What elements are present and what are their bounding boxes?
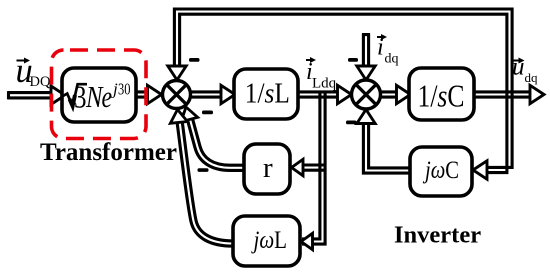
block: 1/sC — [409, 68, 474, 120]
arrowhead: into 1/sL block — [221, 85, 235, 103]
label: jwL — [251, 225, 287, 254]
svg-text:3: 3 — [74, 79, 87, 115]
arrowhead: into junction 1 from left — [148, 85, 162, 103]
svg-text:Inverter: Inverter — [394, 222, 481, 249]
arrowhead: into 1/sC block — [397, 85, 411, 103]
arrowhead: into junction 2 from left — [338, 85, 352, 103]
red dashed box around transformer block — [52, 50, 147, 139]
wire: junction 1 output to 1/sL — [191, 92, 225, 97]
label: sqrt(3)Ne^j30 — [63, 79, 131, 115]
wire: jwL feedback curve — [179, 113, 234, 244]
svg-text:dq: dq — [525, 70, 539, 85]
svg-text:e: e — [102, 79, 113, 114]
block: r — [244, 144, 290, 194]
minus sign at junction 2 for jwC feedback — [346, 121, 357, 125]
svg-text:1/sL: 1/sL — [245, 77, 290, 109]
wire: 1/sL output to junction 2 — [298, 92, 339, 97]
arrowhead: i_dq into junction 2 from top — [357, 66, 375, 80]
arrowhead: jwC feedback into junction 2 from bottom — [357, 110, 375, 124]
minus sign at junction 1 top feedback — [189, 58, 200, 62]
label: 1/sC — [418, 78, 465, 114]
block: jwL — [233, 216, 300, 266]
block: transformer sqrt(3)Ne^j30 — [62, 68, 136, 122]
arrowhead: into jwL block from right — [301, 233, 313, 249]
label: jwC — [423, 155, 459, 184]
label: i_Ldq — [306, 57, 337, 92]
arrowhead: into jwC block from right — [473, 161, 487, 179]
wire: feedback tap down from i_Ldq line to r and jwL — [302, 91, 325, 244]
wire: 1/sC output and u_dq output arrow line — [474, 92, 531, 97]
svg-text:dq: dq — [385, 52, 399, 67]
minus sign for r feedback — [198, 168, 209, 172]
wire: input u_DQ line — [8, 91, 52, 99]
arrowhead: jwL feedback curve into junction 1 — [169, 109, 187, 124]
label: u_dq output — [512, 54, 538, 86]
minus sign at junction 1 for jwL feedback — [202, 111, 213, 115]
label: u_DQ input — [16, 52, 51, 90]
label: i_dq — [377, 34, 399, 67]
svg-text:1/sC: 1/sC — [418, 78, 465, 114]
arrowhead: top feedback into junction 1 — [168, 66, 186, 80]
svg-text:j: j — [111, 80, 118, 99]
wire: top feedback loop (u_dq back to junction 1, down right side to jwC) — [174, 9, 512, 173]
arrowhead: r feedback curve into junction 1 — [178, 105, 198, 122]
wire: r feedback curve — [188, 112, 244, 168]
svg-text:DQ: DQ — [30, 74, 51, 90]
minus sign at junction 2 for i_dq — [348, 58, 358, 62]
arrowhead: into r block from right — [292, 159, 304, 175]
svg-text:jωC: jωC — [423, 155, 459, 184]
wire: i_dq input line from top — [362, 34, 370, 67]
summing junction 1 — [163, 81, 191, 109]
block: jwC — [410, 147, 472, 196]
wire: junction 2 output to 1/sC — [381, 92, 399, 97]
svg-text:r: r — [263, 152, 273, 184]
wire: branch from tap into r block — [302, 165, 324, 170]
label: 1/sL — [245, 77, 290, 109]
wire: transformer output to junction 1 — [136, 92, 151, 97]
arrowhead: u_dq output arrow tip — [530, 85, 544, 103]
wire: jwC output to junction 2 bottom — [363, 122, 410, 173]
svg-text:u: u — [512, 54, 525, 81]
svg-text:Ldq: Ldq — [312, 76, 337, 92]
block: 1/sL — [234, 69, 298, 119]
svg-text:jωL: jωL — [251, 225, 287, 254]
svg-text:30: 30 — [118, 80, 131, 99]
summing junction 2 — [352, 80, 381, 109]
svg-text:Transformer: Transformer — [40, 139, 177, 166]
arrowhead: into transformer block — [51, 86, 65, 104]
